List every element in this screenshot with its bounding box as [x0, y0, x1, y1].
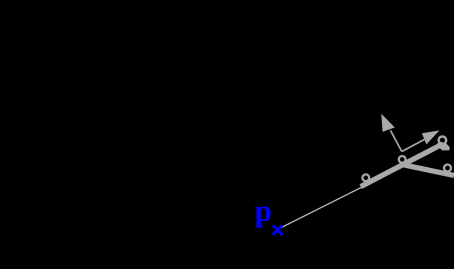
joint D (ring)	[444, 165, 451, 172]
link L2 (lower thick link)	[401, 164, 454, 175]
joint A (ring)	[362, 174, 369, 181]
label p (point p)	[255, 195, 272, 226]
frame axis arrow 2 (up-right)	[402, 130, 440, 151]
joint B (ring)	[399, 156, 406, 163]
link stub beyond joint C	[437, 143, 450, 150]
link L1 (main thick link)	[361, 144, 443, 187]
frame axis arrow 1 (up-left)	[381, 114, 402, 152]
wire: thin ray from point p to link	[278, 187, 363, 230]
joint C (ring)	[439, 136, 447, 144]
marker x at point p	[273, 225, 283, 235]
